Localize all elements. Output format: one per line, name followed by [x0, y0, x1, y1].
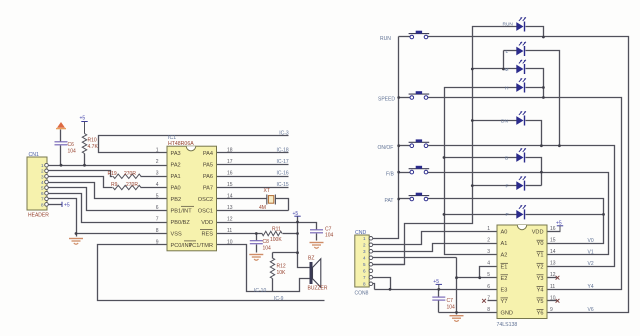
svg-text:R19: R19 — [108, 171, 117, 177]
svg-text:E3: E3 — [501, 287, 508, 293]
svg-text:IC-3: IC-3 — [279, 130, 289, 136]
svg-text:PA7: PA7 — [203, 186, 213, 192]
svg-text:DN: DN — [501, 118, 508, 124]
svg-text:+5: +5 — [64, 202, 70, 208]
svg-text:PB0/BZ: PB0/BZ — [171, 220, 191, 226]
svg-text:6: 6 — [41, 191, 44, 196]
svg-text:18: 18 — [227, 147, 233, 153]
svg-text:HEADER: HEADER — [28, 212, 49, 218]
svg-text:104: 104 — [447, 304, 456, 310]
svg-text:7: 7 — [363, 275, 366, 280]
svg-text:VSS: VSS — [171, 232, 182, 238]
svg-text:16: 16 — [227, 170, 233, 176]
svg-text:270R: 270R — [124, 171, 136, 177]
svg-text:4: 4 — [487, 261, 490, 267]
svg-text:4M: 4M — [259, 205, 266, 211]
svg-text:CON8: CON8 — [355, 290, 369, 296]
svg-text:IC-16: IC-16 — [276, 171, 288, 177]
svg-text:BUZZER: BUZZER — [308, 285, 328, 291]
svg-text:1: 1 — [487, 226, 490, 232]
svg-text:V0: V0 — [588, 238, 594, 244]
svg-text:5: 5 — [487, 272, 490, 278]
svg-text:7: 7 — [156, 216, 159, 222]
svg-text:6: 6 — [487, 284, 490, 290]
svg-text:C8: C8 — [263, 239, 270, 245]
svg-text:PA3: PA3 — [171, 151, 181, 157]
svg-text:74LS138: 74LS138 — [497, 322, 518, 328]
svg-text:3: 3 — [363, 249, 366, 254]
svg-text:IC-10: IC-10 — [254, 288, 266, 294]
svg-text:1: 1 — [363, 236, 366, 241]
svg-text:Y4: Y4 — [588, 284, 594, 290]
svg-text:104: 104 — [263, 245, 272, 251]
svg-text:RUN: RUN — [380, 36, 391, 42]
svg-text:3: 3 — [156, 170, 159, 176]
svg-text:C6: C6 — [68, 142, 75, 148]
svg-text:C7: C7 — [325, 226, 332, 232]
svg-text:4: 4 — [41, 180, 44, 185]
svg-text:Y6: Y6 — [537, 311, 544, 317]
svg-text:RUN: RUN — [503, 21, 514, 27]
svg-text:10K: 10K — [277, 270, 287, 276]
svg-text:4.7K: 4.7K — [88, 144, 99, 150]
svg-text:15: 15 — [227, 182, 233, 188]
svg-text:8: 8 — [487, 307, 490, 313]
svg-text:PA0: PA0 — [171, 186, 181, 192]
svg-text:7: 7 — [41, 197, 44, 202]
svg-text:IC-18: IC-18 — [276, 148, 288, 154]
svg-text:3: 3 — [41, 174, 44, 179]
svg-text:PB1/INT: PB1/INT — [171, 209, 193, 215]
svg-text:9: 9 — [550, 307, 553, 313]
svg-text:PC1/TMR: PC1/TMR — [188, 243, 213, 249]
svg-text:4: 4 — [363, 256, 366, 261]
svg-text:5: 5 — [363, 262, 366, 267]
svg-text:GND: GND — [501, 311, 513, 317]
svg-text:+5: +5 — [556, 220, 562, 226]
svg-text:IC-15: IC-15 — [276, 182, 288, 188]
svg-text:PB2: PB2 — [171, 197, 182, 203]
svg-text:12: 12 — [227, 216, 233, 222]
svg-text:6: 6 — [363, 269, 366, 274]
svg-text:8: 8 — [363, 282, 366, 287]
svg-text:VDD: VDD — [201, 220, 213, 226]
svg-text:HT48R06A: HT48R06A — [168, 141, 194, 147]
svg-text:E2: E2 — [501, 276, 508, 282]
svg-text:PA2: PA2 — [171, 163, 181, 169]
svg-text:A2: A2 — [501, 253, 508, 259]
svg-text:15: 15 — [550, 238, 556, 244]
svg-text:14: 14 — [227, 193, 233, 199]
svg-text:P: P — [506, 212, 509, 218]
svg-text:11: 11 — [227, 228, 232, 234]
svg-text:Y1: Y1 — [537, 253, 544, 259]
svg-text:+5: +5 — [80, 116, 86, 122]
svg-text:A1: A1 — [501, 241, 508, 247]
svg-text:4: 4 — [156, 182, 159, 188]
svg-text:2: 2 — [41, 169, 44, 174]
svg-text:PA1: PA1 — [171, 174, 181, 180]
svg-text:L: L — [506, 49, 509, 55]
svg-text:Y0: Y0 — [537, 241, 544, 247]
svg-text:R11: R11 — [272, 227, 281, 233]
svg-text:E1: E1 — [501, 264, 508, 270]
svg-text:Y2: Y2 — [537, 264, 544, 270]
svg-text:17: 17 — [227, 159, 233, 165]
svg-text:+5: +5 — [433, 279, 439, 285]
svg-text:104: 104 — [325, 233, 334, 239]
svg-text:CND: CND — [355, 230, 366, 236]
svg-text:C7: C7 — [447, 298, 454, 304]
svg-text:5: 5 — [41, 186, 44, 191]
svg-text:2: 2 — [487, 238, 490, 244]
svg-text:CN1: CN1 — [29, 152, 39, 158]
svg-text:100K: 100K — [270, 237, 282, 243]
svg-text:XT: XT — [264, 188, 270, 194]
svg-text:B: B — [505, 155, 508, 161]
svg-text:RES: RES — [201, 232, 213, 238]
svg-text:8: 8 — [41, 202, 44, 207]
svg-text:BZ: BZ — [308, 256, 314, 262]
svg-text:R10: R10 — [88, 138, 97, 144]
svg-text:+5: +5 — [293, 211, 299, 217]
svg-text:104: 104 — [68, 148, 77, 154]
svg-text:13: 13 — [227, 205, 233, 211]
svg-text:270R: 270R — [126, 182, 138, 188]
svg-text:F: F — [506, 183, 509, 189]
svg-text:10: 10 — [227, 239, 233, 245]
svg-text:R12: R12 — [277, 263, 286, 269]
svg-text:5: 5 — [156, 193, 159, 199]
svg-text:IC-9: IC-9 — [274, 296, 284, 302]
svg-text:2: 2 — [363, 243, 366, 248]
svg-text:PA6: PA6 — [203, 174, 213, 180]
svg-text:Y7: Y7 — [501, 299, 508, 305]
svg-text:7: 7 — [487, 295, 490, 301]
svg-text:M: M — [505, 67, 509, 73]
svg-text:Y4: Y4 — [537, 287, 544, 293]
svg-text:ON/OF: ON/OF — [378, 145, 394, 151]
svg-text:H: H — [505, 85, 509, 91]
svg-text:SPEED: SPEED — [378, 97, 395, 103]
svg-text:VDD: VDD — [532, 230, 544, 236]
svg-text:PA4: PA4 — [203, 151, 213, 157]
svg-text:Y5: Y5 — [537, 299, 544, 305]
svg-text:R9: R9 — [111, 182, 118, 188]
svg-text:6: 6 — [156, 205, 159, 211]
svg-text:11: 11 — [550, 284, 555, 290]
svg-text:14: 14 — [550, 249, 556, 255]
svg-text:V2: V2 — [588, 261, 594, 267]
svg-text:V1: V1 — [588, 249, 594, 255]
svg-text:16: 16 — [550, 226, 556, 232]
svg-text:8: 8 — [156, 228, 159, 234]
svg-text:1: 1 — [41, 163, 44, 168]
svg-text:OSC2: OSC2 — [198, 197, 213, 203]
svg-text:PAT: PAT — [385, 198, 394, 204]
svg-text:V6: V6 — [588, 307, 594, 313]
svg-text:IC1: IC1 — [168, 135, 176, 141]
svg-text:12: 12 — [550, 272, 556, 278]
svg-text:9: 9 — [156, 239, 159, 245]
svg-text:IC-17: IC-17 — [276, 159, 288, 165]
svg-text:A0: A0 — [501, 230, 508, 236]
svg-text:3: 3 — [487, 249, 490, 255]
svg-text:10: 10 — [550, 295, 556, 301]
svg-text:OSC1: OSC1 — [198, 209, 213, 215]
svg-text:PA5: PA5 — [203, 163, 213, 169]
svg-text:F/B: F/B — [386, 171, 394, 177]
svg-text:13: 13 — [550, 261, 556, 267]
svg-text:1: 1 — [156, 147, 159, 153]
svg-text:2: 2 — [156, 159, 159, 165]
svg-text:Y3: Y3 — [537, 276, 544, 282]
